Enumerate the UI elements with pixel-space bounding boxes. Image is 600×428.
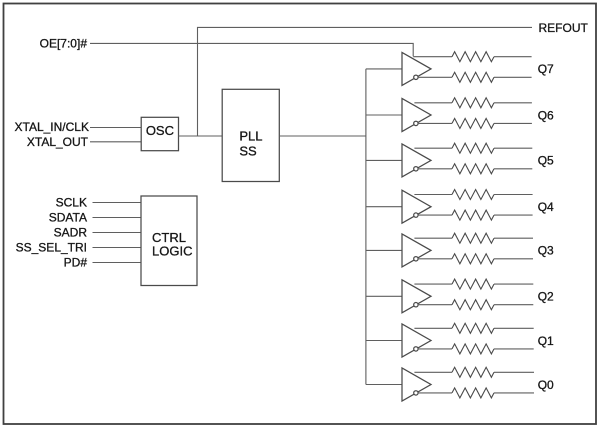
resistor (series, Q4 complement path): [452, 210, 494, 220]
wire PD# to CTRL LOGIC pin: [93, 262, 142, 264]
wire SS_SEL_TRI to CTRL LOGIC pin: [93, 247, 142, 249]
wire SDATA to CTRL LOGIC pin: [93, 217, 142, 219]
wire buffer Q2 complement output to resistor and out: [418, 304, 533, 306]
resistor (series, Q4 true path): [452, 190, 494, 200]
wire bus tap to buffer Q5 input: [366, 159, 402, 161]
wire buffer Q1 complement output to resistor and out: [418, 348, 534, 350]
svg-text:PD#: PD#: [64, 256, 88, 270]
wire bus tap to buffer Q3 input: [366, 249, 402, 251]
wire buffer Q7 complement output to resistor and out: [418, 76, 532, 78]
control logic block CTRL LOGIC: [141, 196, 197, 286]
svg-text:XTAL_OUT: XTAL_OUT: [27, 135, 89, 149]
wire REFOUT net: riser from OSC/PLL node and top run to REFOUT: [198, 27, 533, 136]
buffer U7 (output buffer Q1): [402, 324, 431, 357]
wire buffer Q5 true output to resistor and to Q5 pin: [414, 147, 532, 149]
svg-text:SS: SS: [239, 144, 257, 159]
inversion bubble on buffer U8 complement output: [414, 391, 418, 395]
buffer U1 (output buffer Q7): [402, 52, 431, 85]
wire bus tap to buffer Q4 input: [366, 206, 402, 208]
wire buffer Q2 true output to resistor and to Q2 pin: [414, 283, 533, 285]
wire buffer Q3 complement output to resistor and out: [418, 258, 533, 260]
inversion bubble on buffer U7 complement output: [414, 347, 418, 351]
buffer U2 (output buffer Q6): [402, 99, 431, 132]
svg-text:Q6: Q6: [538, 108, 554, 122]
inversion bubble on buffer U2 complement output: [414, 121, 418, 125]
svg-text:SADR: SADR: [54, 226, 88, 240]
svg-text:PLL: PLL: [239, 129, 262, 144]
svg-text:OSC: OSC: [146, 123, 174, 138]
wire bus tap to buffer Q6 input: [366, 114, 402, 116]
wire XTAL_OUT to OSC pin: [90, 141, 141, 143]
svg-text:Q3: Q3: [538, 244, 554, 258]
svg-text:SDATA: SDATA: [49, 211, 87, 225]
inversion bubble on buffer U6 complement output: [414, 303, 418, 307]
wire XTAL_IN/CLK to OSC pin: [90, 127, 141, 129]
buffer U6 (output buffer Q2): [402, 280, 431, 313]
svg-text:OE[7:0]#: OE[7:0]#: [40, 37, 88, 51]
resistor (series, Q1 complement path): [452, 344, 494, 354]
buffer U5 (output buffer Q3): [402, 234, 431, 267]
wire buffer Q5 complement output to resistor and out: [418, 168, 532, 170]
svg-text:Q5: Q5: [538, 154, 554, 168]
svg-text:Q4: Q4: [538, 200, 554, 214]
resistor (series, Q3 complement path): [452, 254, 494, 264]
wire buffer Q6 complement output to resistor and out: [418, 122, 532, 124]
wire buffer Q0 true output to resistor and to Q0 pin: [414, 371, 534, 373]
wire buffer Q6 true output to resistor and to Q6 pin: [414, 102, 532, 104]
resistor (series, Q6 true path): [452, 98, 494, 108]
wire bus tap to buffer Q7 input: [366, 68, 402, 70]
svg-text:CTRL: CTRL: [152, 230, 186, 245]
resistor (series, Q5 complement path): [452, 164, 494, 174]
wire buffer Q4 complement output to resistor and out: [418, 214, 533, 216]
wire buffer Q7 true output to resistor and to Q7 pin: [413, 56, 531, 58]
wire OE[7:0]# net: horizontal run and drop to buffer Q7 output line: [90, 43, 413, 56]
wire buffer Q1 true output to resistor and to Q1 pin: [414, 327, 533, 329]
wire PLL SS output to distribution bus: [279, 135, 366, 137]
wire bus tap to buffer Q1 input: [366, 340, 402, 342]
buffer U3 (output buffer Q5): [402, 144, 431, 177]
buffer U8 (output buffer Q0): [402, 368, 431, 401]
resistor (series, Q5 true path): [452, 143, 494, 153]
resistor (series, Q7 true path): [452, 52, 494, 62]
PLL block PLL SS: [222, 89, 279, 181]
inversion bubble on buffer U1 complement output: [414, 75, 418, 79]
wire SCLK to CTRL LOGIC pin: [93, 202, 142, 204]
svg-text:Q1: Q1: [538, 334, 554, 348]
svg-text:LOGIC: LOGIC: [152, 244, 192, 259]
oscillator block OSC: [141, 117, 178, 150]
resistor (series, Q2 complement path): [452, 300, 494, 310]
svg-text:Q7: Q7: [538, 62, 554, 76]
wire buffer Q4 true output to resistor and to Q4 pin: [414, 194, 532, 196]
resistor (series, Q7 complement path): [452, 72, 494, 82]
resistor (series, Q0 complement path): [452, 388, 494, 398]
wire bus tap to buffer Q0 input: [366, 384, 402, 386]
svg-text:XTAL_IN/CLK: XTAL_IN/CLK: [15, 120, 89, 134]
inversion bubble on buffer U4 complement output: [414, 213, 418, 217]
svg-text:SCLK: SCLK: [56, 196, 87, 210]
inversion bubble on buffer U3 complement output: [414, 167, 418, 171]
resistor (series, Q0 true path): [452, 367, 494, 377]
wire SADR to CTRL LOGIC pin: [93, 232, 142, 234]
svg-text:SS_SEL_TRI: SS_SEL_TRI: [16, 241, 87, 255]
resistor (series, Q2 true path): [452, 279, 494, 289]
resistor (series, Q6 complement path): [452, 118, 494, 128]
wire buffer Q0 complement output to resistor and out: [418, 392, 534, 394]
svg-text:Q2: Q2: [538, 290, 554, 304]
inversion bubble on buffer U5 complement output: [414, 257, 418, 261]
resistor (series, Q3 true path): [452, 233, 494, 243]
svg-text:Q0: Q0: [538, 378, 554, 392]
svg-text:REFOUT: REFOUT: [539, 21, 589, 35]
buffer U4 (output buffer Q4): [402, 190, 431, 223]
wire bus tap to buffer Q2 input: [366, 295, 402, 297]
wire OSC output to PLL SS input: [179, 135, 223, 137]
wire buffer Q3 true output to resistor and to Q3 pin: [414, 237, 533, 239]
wire vertical clock distribution bus: [365, 69, 367, 385]
resistor (series, Q1 true path): [452, 323, 494, 333]
